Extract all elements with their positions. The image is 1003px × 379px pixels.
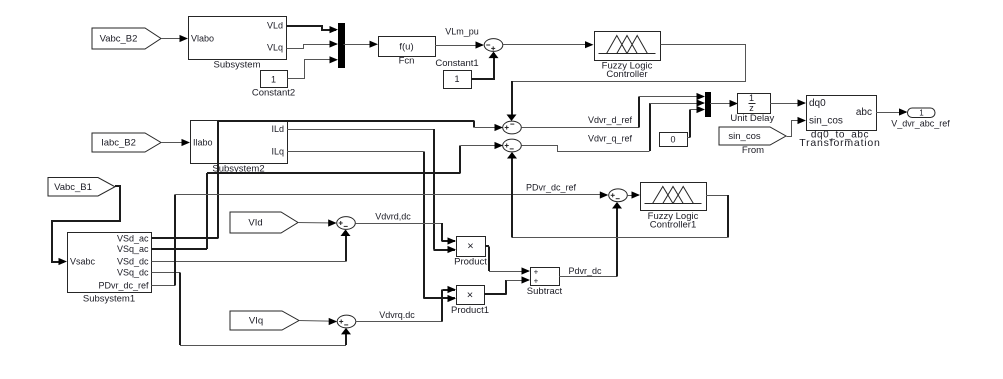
From tag sin_cos bbox=[719, 127, 786, 156]
svg-text:×: × bbox=[467, 290, 473, 302]
constant C0 value 0 bbox=[660, 133, 688, 147]
svg-text:Controller1: Controller1 bbox=[650, 220, 696, 231]
svg-text:Vabc_B2: Vabc_B2 bbox=[100, 34, 138, 45]
svg-text:f(u): f(u) bbox=[399, 42, 413, 53]
From tag Vabc_B1 bbox=[48, 178, 115, 197]
wire Iabc_B2 to Subsystem2 bbox=[161, 139, 190, 146]
wire VSq_dc to sum S5 bbox=[152, 273, 352, 346]
wire ILd to Product bbox=[287, 129, 456, 253]
wire Fuzzy Logic Controller feedback to sum S1 bbox=[507, 45, 746, 122]
sum S2 bbox=[503, 139, 522, 152]
constant C1 Constant1 bbox=[435, 58, 478, 89]
svg-text:Product: Product bbox=[454, 257, 487, 268]
block Fuzzy Logic Controller1 U6 bbox=[641, 183, 707, 231]
svg-text:Iabc_B2: Iabc_B2 bbox=[101, 138, 136, 149]
svg-text:V_dvr_abc_ref: V_dvr_abc_ref bbox=[891, 119, 950, 129]
svg-text:Transformation: Transformation bbox=[799, 137, 880, 149]
node Vdvrq.dc wire sum S5 to Product1 bbox=[356, 286, 456, 322]
sum S5 bbox=[337, 315, 356, 328]
svg-text:VLm_pu: VLm_pu bbox=[445, 27, 479, 37]
wire VSd_ac to sum S1 bbox=[152, 121, 504, 239]
svg-text:Vdvr_q_ref: Vdvr_q_ref bbox=[588, 134, 633, 144]
svg-text:VSq_ac: VSq_ac bbox=[117, 244, 149, 254]
svg-text:Vdvr_d_ref: Vdvr_d_ref bbox=[588, 115, 633, 125]
svg-text:Fcn: Fcn bbox=[399, 56, 415, 67]
svg-text:From: From bbox=[742, 145, 764, 156]
svg-text:+: + bbox=[534, 277, 539, 286]
block Subsystem2 U3 bbox=[191, 121, 288, 175]
wire Unit Delay to dq0 input bbox=[770, 99, 806, 106]
svg-text:abc: abc bbox=[856, 107, 872, 118]
wire Vabc_B1 to Subsystem1 bbox=[52, 186, 120, 265]
node Vdvrd,dc wire sum S4 to Product bbox=[355, 212, 456, 245]
wire Fuzzy Logic Controller1 feedback to sum S2 bbox=[507, 152, 728, 238]
wire VLd to Mux1 bbox=[286, 26, 338, 33]
svg-text:Subsystem: Subsystem bbox=[214, 60, 261, 71]
svg-text:sin_cos: sin_cos bbox=[728, 131, 760, 142]
wire Vabc_B2 to Subsystem bbox=[161, 35, 188, 42]
block Subsystem U1 bbox=[189, 17, 287, 71]
svg-text:1: 1 bbox=[271, 75, 276, 85]
svg-text:×: × bbox=[467, 241, 473, 253]
svg-text:Ilabo: Ilabo bbox=[193, 138, 213, 148]
wire sin_cos to transformation bbox=[787, 117, 807, 137]
mux Mux1 bbox=[339, 24, 345, 68]
From tag VId bbox=[230, 212, 298, 233]
node PDvr_dc_ref wire Subsystem1 to sum S3 bbox=[152, 183, 609, 286]
wire sum S3 to Fuzzy Logic Controller1 bbox=[628, 191, 640, 198]
svg-text:VLd: VLd bbox=[267, 21, 283, 31]
svg-text:1: 1 bbox=[919, 109, 924, 118]
sum S4 bbox=[337, 217, 356, 230]
From tag VIq bbox=[230, 311, 299, 330]
sum S0 bbox=[484, 39, 503, 52]
block Product P1 bbox=[454, 237, 487, 268]
wire Product to Subtract bbox=[485, 246, 530, 275]
block Unit Delay 1/z bbox=[730, 93, 774, 124]
block dq0_to_abc Transformation U4 bbox=[799, 96, 880, 150]
svg-text:Constant1: Constant1 bbox=[435, 58, 478, 69]
svg-text:Vdvrd,dc: Vdvrd,dc bbox=[375, 212, 411, 222]
From tag Iabc_B2 bbox=[92, 133, 161, 152]
wire sum S0 to Fuzzy Logic Controller bbox=[503, 41, 594, 48]
wire VIq to sum S5 bbox=[299, 318, 337, 325]
wire VSq_ac to sum S2 bbox=[152, 142, 504, 249]
svg-text:Product1: Product1 bbox=[451, 305, 489, 316]
svg-text:VIq: VIq bbox=[249, 316, 263, 327]
wire Constant2 to Mux1 bbox=[288, 56, 339, 78]
svg-text:Subtract: Subtract bbox=[527, 286, 563, 297]
svg-text:VId: VId bbox=[248, 218, 262, 229]
svg-text:Constant2: Constant2 bbox=[252, 88, 295, 99]
svg-text:Subsystem1: Subsystem1 bbox=[83, 294, 135, 305]
output port 1 V_dvr_abc_ref bbox=[891, 108, 950, 129]
wire Mux1 to Fcn bbox=[344, 41, 379, 48]
sum S3 bbox=[609, 189, 628, 202]
constant C2 Constant2 bbox=[252, 71, 295, 99]
wire VId to sum S4 bbox=[298, 219, 337, 226]
wire Mux2 to Unit Delay bbox=[710, 100, 738, 107]
svg-text:1: 1 bbox=[749, 93, 754, 103]
mux Mux2 bbox=[706, 93, 711, 117]
wire Product1 to Subtract bbox=[484, 276, 530, 294]
sum S1 bbox=[503, 121, 522, 134]
node Vdvr_q_ref wire sum S2 to Mux2 bbox=[522, 99, 706, 151]
svg-text:ILq: ILq bbox=[271, 147, 284, 157]
block Fcn f(u) bbox=[379, 37, 436, 67]
block Product1 P2 bbox=[451, 286, 489, 317]
svg-text:+: + bbox=[534, 268, 539, 277]
wire Constant1 to sum S0 bbox=[471, 52, 499, 79]
svg-text:Vabc_B1: Vabc_B1 bbox=[54, 182, 92, 193]
svg-text:ILd: ILd bbox=[271, 124, 284, 134]
block Fuzzy Logic Controller U2 bbox=[595, 32, 661, 81]
node Vdvr_d_ref wire sum S1 to Mux2 bbox=[521, 93, 705, 128]
svg-text:PDvr_dc_ref: PDvr_dc_ref bbox=[526, 183, 577, 193]
wire constant 0 to Mux2 bbox=[687, 106, 705, 138]
block Subsystem1 U5 bbox=[68, 233, 152, 305]
svg-text:Vlabo: Vlabo bbox=[191, 34, 214, 44]
svg-text:z: z bbox=[749, 103, 754, 113]
node Pdvr_dc wire Subtract to sum S3 bbox=[559, 202, 622, 277]
block Subtract A1 bbox=[527, 268, 563, 298]
wire VLq to Mux1 bbox=[287, 40, 339, 48]
svg-text:Vsabc: Vsabc bbox=[70, 257, 96, 267]
svg-text:Unit Delay: Unit Delay bbox=[730, 113, 774, 124]
node VLm_pu bbox=[435, 27, 484, 49]
svg-text:Vdvrq.dc: Vdvrq.dc bbox=[379, 310, 415, 320]
svg-text:VLq: VLq bbox=[267, 43, 283, 53]
svg-text:VSq_dc: VSq_dc bbox=[117, 268, 149, 278]
svg-text:Pdvr_dc: Pdvr_dc bbox=[568, 266, 602, 276]
svg-text:sin_cos: sin_cos bbox=[809, 116, 843, 127]
svg-text:1: 1 bbox=[454, 74, 459, 84]
svg-text:PDvr_dc_ref: PDvr_dc_ref bbox=[98, 281, 149, 291]
svg-text:dq0: dq0 bbox=[809, 98, 826, 109]
wire ILq to Product1 bbox=[287, 152, 456, 303]
svg-text:VSd_ac: VSd_ac bbox=[117, 234, 149, 244]
From tag Vabc_B2 bbox=[92, 28, 161, 49]
wire abc to output port bbox=[876, 108, 908, 115]
svg-text:Controller: Controller bbox=[606, 69, 647, 80]
wire VSd_dc to sum S4 bbox=[152, 230, 351, 262]
svg-text:VSd_dc: VSd_dc bbox=[117, 257, 149, 267]
svg-text:0: 0 bbox=[670, 135, 675, 145]
